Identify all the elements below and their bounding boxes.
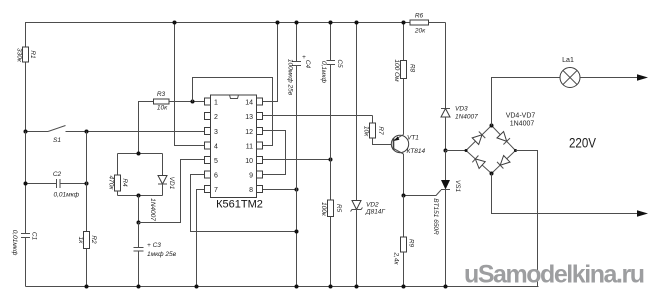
node junction top rail pin4 riser [173,21,177,25]
pin 3 [205,128,219,137]
node junction bridge bottom [490,172,494,176]
svg-text:R1: R1 [29,50,36,59]
resistor R5 [320,200,342,287]
svg-text:100мкф 25в: 100мкф 25в [286,59,293,96]
bridge VD4-VD7 diamond [466,113,535,174]
wire pin8 [263,189,297,191]
svg-text:R5: R5 [335,204,342,213]
svg-text:La1: La1 [562,57,574,64]
svg-text:R7: R7 [377,126,384,135]
wire riser to pin4 [175,23,205,146]
wire bridge bottom to line terminal [492,174,639,214]
svg-text:uSamodelkina.ru: uSamodelkina.ru [464,261,645,289]
capacitor C1 [11,230,38,256]
svg-text:C4: C4 [304,60,311,69]
node junction bridge left [465,149,468,152]
node junction ground rail VS1 [444,285,448,289]
svg-text:100 Ом: 100 Ом [393,59,400,82]
node junction S1-left [24,130,28,134]
transistor VT1 КТ814 [391,135,425,156]
wire R4/VD1 bottom [118,195,163,197]
wire pin5 link [139,160,205,223]
wire bridge top to lamp [492,78,561,126]
node junction pin7 ground [195,285,199,289]
svg-text:220V: 220V [569,136,596,151]
wire pin10 [263,159,331,161]
capacitor C4 [286,23,311,287]
node junction C2-left [24,182,28,186]
svg-text:0,1мкф: 0,1мкф [320,61,327,84]
svg-text:20к: 20к [414,28,426,35]
node junction ground rail C3 [137,285,141,289]
svg-text:4: 4 [214,144,218,151]
wire pin12 to pin9 [263,131,286,175]
svg-text:R9: R9 [407,239,414,248]
diode VD1 [149,154,175,222]
switch S1 [26,126,205,145]
pin 7 [205,186,219,195]
node junction bridge top [490,124,494,128]
svg-text:R2: R2 [90,235,97,244]
node junction top rail pin14 [276,21,280,25]
diode VD7 [472,156,485,169]
svg-text:К561ТМ2: К561ТМ2 [216,199,263,211]
wire C1 bottom [25,238,27,287]
svg-text:0,01мкф: 0,01мкф [11,230,18,256]
pin 13 [245,113,262,122]
svg-text:8: 8 [249,187,253,194]
node junction ground rail R2 [85,285,89,289]
op-amp U1 К561ТМ2 body [211,95,263,211]
wire left column [25,132,27,234]
pin 14 [245,98,262,107]
node junction C3 top [137,221,141,225]
svg-text:0,01мкф: 0,01мкф [54,192,80,199]
node junction bridge right [514,149,517,152]
node junction ground rail R9 [402,285,406,289]
node junction top rail R8 [402,21,406,25]
svg-text:C5: C5 [336,59,343,68]
svg-text:+ C3: + C3 [147,242,161,249]
node junction loop bottom [137,194,141,198]
svg-text:10: 10 [245,158,253,165]
resistor R9 [392,196,414,287]
wire pin1 feedback to pin11 [193,78,273,146]
node junction VD3-bridge [444,149,448,153]
svg-text:330к: 330к [15,48,22,63]
pin 4 [205,142,219,151]
svg-text:7: 7 [214,187,218,194]
svg-text:R3: R3 [157,91,166,98]
pin 8 [249,186,262,195]
svg-text:C1: C1 [30,232,37,241]
wire bridge left input [446,150,467,152]
wire pin7 to ground rail [197,190,205,287]
node junction pin10-C5 [329,158,333,162]
resistor R1 [15,47,36,63]
svg-text:100к: 100к [320,202,327,217]
capacitor C3 [134,223,177,287]
node junction top rail VD2 [355,21,359,25]
resistor R2 [77,232,97,249]
svg-text:S1: S1 [53,137,61,144]
wire R4/VD1 top [118,153,163,155]
svg-text:6: 6 [214,173,218,180]
svg-text:470к: 470к [107,176,114,191]
svg-text:VD3: VD3 [455,106,468,113]
arrow line terminal bottom [637,210,648,216]
svg-text:R4: R4 [121,178,128,187]
node junction ground rail R5 [329,285,333,289]
svg-text:12: 12 [245,129,253,136]
wire lamp to line terminal [580,77,638,79]
node junction top rail C4 [295,21,299,25]
thyristor VS1 BT151 [432,151,461,287]
svg-text:R8: R8 [408,64,415,73]
node junction R3-pin1 [191,100,195,104]
pin 6 [205,171,219,180]
svg-text:9: 9 [249,173,253,180]
wire pin13 to R7 [263,115,373,117]
node junction C2-right [85,182,89,186]
svg-text:3: 3 [214,129,218,136]
node junction top rail C5 [329,21,333,25]
node junction loop top [137,152,141,156]
svg-text:VT1: VT1 [407,135,419,142]
pin 9 [249,171,262,180]
svg-text:КТ814: КТ814 [407,148,426,155]
wire second column [86,132,88,232]
svg-text:VD2: VD2 [366,202,379,209]
resistor R4 [107,154,128,196]
resistor R8 [393,23,416,135]
svg-text:VD4-VD7: VD4-VD7 [506,113,536,120]
diode VD5 [497,132,510,145]
pin 11 [246,142,263,151]
svg-text:14: 14 [245,100,253,107]
diode VD4 [472,132,485,145]
lamp La1 [560,57,580,88]
pin 5 [205,157,219,166]
resistor R7 [362,116,393,145]
pin 2 [205,113,219,122]
capacitor C5 [320,23,343,201]
node junction ground rail C4 [295,285,299,289]
wire bottom ground rail [26,286,539,288]
wire pin14 to supply [263,23,278,102]
node junction pin8 riser [295,188,299,192]
svg-text:1: 1 [214,100,218,107]
svg-text:C2: C2 [53,171,62,178]
svg-text:1N4007: 1N4007 [149,198,156,221]
wire top supply rail [26,23,411,132]
node junction ground link riser [295,230,299,234]
wire R2 bottom [86,249,88,287]
svg-text:11: 11 [246,144,253,151]
svg-text:R6: R6 [415,13,424,20]
svg-text:VD1: VD1 [168,177,175,190]
svg-text:10к: 10к [157,105,168,112]
wire VT1 collector / gate [404,154,442,196]
resistor R6 [410,13,446,35]
svg-text:10к: 10к [362,126,369,137]
wire loop to C3 node [138,196,140,223]
svg-text:1мкф 25в: 1мкф 25в [147,251,177,258]
svg-text:1N4007: 1N4007 [455,114,478,121]
pin 10 [245,157,262,166]
svg-text:BT151 650R: BT151 650R [432,198,439,235]
wire pin6 ground link [191,175,297,232]
svg-text:2,4к: 2,4к [392,251,399,265]
arrow line terminal top [637,74,648,80]
node junction S1-right [85,130,89,134]
capacitor C2 [26,171,87,199]
svg-text:13: 13 [245,114,253,121]
svg-text:VS1: VS1 [454,180,461,193]
svg-text:1N4007: 1N4007 [510,121,535,128]
diode VD6 [497,156,510,169]
resistor R3 [139,91,205,154]
pin 1 [205,98,219,107]
node junction gate-R9 [402,194,406,198]
diode VD3 [441,23,478,151]
diode VD2 zener [351,23,386,287]
wire bridge right to ground rail [516,151,538,287]
pin 12 [245,128,262,137]
svg-text:1к: 1к [77,237,84,245]
svg-text:5: 5 [214,158,218,165]
node junction ground rail VD2 [355,285,359,289]
svg-text:2: 2 [214,114,218,121]
svg-text:Д814Г: Д814Г [365,209,385,216]
